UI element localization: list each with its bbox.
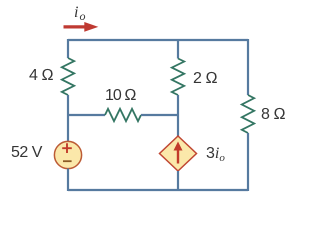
wire middle horizontal right	[141, 114, 179, 116]
resistor R1 4ohm	[62, 58, 74, 95]
label io	[74, 4, 85, 24]
label 8 ohm	[261, 106, 285, 124]
wire left branch upper	[67, 39, 69, 58]
wire middle branch upper	[177, 39, 179, 59]
wire left branch lower	[67, 169, 69, 192]
resistor R2 2ohm	[172, 59, 184, 96]
arrow io current direction	[64, 22, 99, 32]
resistor R4 8ohm	[242, 95, 254, 133]
wire left branch middle	[67, 95, 69, 142]
wire bottom	[68, 189, 248, 191]
current source I1 3io (dependent, diamond)	[160, 136, 197, 171]
label 10 ohm	[105, 87, 136, 105]
wire top: node A to node B to node C	[68, 39, 248, 41]
resistor R3 10ohm	[105, 109, 141, 121]
label 52 V	[11, 144, 42, 162]
wire middle horizontal	[67, 114, 105, 116]
voltage source V1 52V	[54, 141, 81, 168]
label 3io	[206, 145, 225, 164]
label 4 ohm	[29, 67, 53, 85]
wire right branch upper	[247, 39, 249, 95]
label 2 ohm	[193, 70, 217, 88]
wire middle branch lower	[177, 171, 179, 191]
wire right branch lower	[247, 133, 249, 191]
wire middle branch mid	[177, 95, 179, 137]
